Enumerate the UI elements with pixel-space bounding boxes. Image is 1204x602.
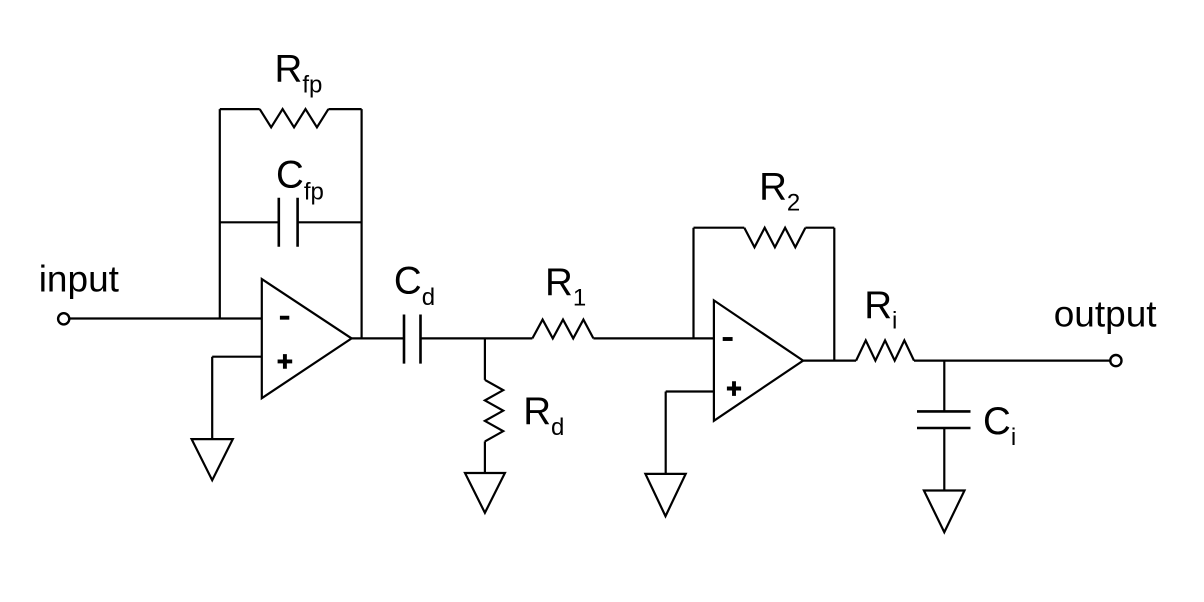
resistor Ri (zigzag, teeth up)	[856, 340, 914, 360]
ground symbol under U1	[192, 439, 233, 480]
wire: input terminal to op-amp U1 inverting input	[70, 317, 262, 319]
wire: U2 non-inverting input vertical to ground	[665, 392, 667, 474]
wire: Rd to ground	[484, 441, 486, 473]
ground symbol under Ci	[924, 491, 965, 533]
wire: R1 to op-amp U2 inverting input	[593, 337, 714, 339]
op-amp U2 triangle	[714, 300, 803, 420]
wire: U1 output to Cd	[352, 337, 404, 339]
wire: Cfp branch left segment	[220, 221, 279, 223]
op-amp U2 minus sign	[723, 337, 733, 341]
svg-text:Cfp: Cfp	[276, 153, 324, 205]
wire: R2 top wire right segment	[805, 227, 834, 229]
resistor R2 (zigzag, teeth down)	[744, 228, 805, 248]
wire: feedback box 1 right vertical	[361, 109, 363, 338]
wire: Rfp top wire right segment	[328, 108, 361, 110]
svg-text:R2: R2	[759, 166, 800, 217]
op-amp U1 triangle	[262, 279, 352, 398]
ground symbol under Rd	[465, 473, 505, 513]
svg-text:Cd: Cd	[394, 259, 435, 311]
svg-text:Ri: Ri	[864, 284, 897, 335]
wire: feedback box 2 left vertical	[692, 228, 694, 339]
op-amp U1 minus sign	[280, 316, 289, 320]
wire: node A down to Rd	[484, 338, 486, 380]
wire: feedback box 2 right vertical	[833, 228, 835, 361]
svg-text:output: output	[1054, 293, 1158, 334]
wire: node B down to Ci	[943, 361, 945, 412]
resistor R1 (zigzag, teeth up)	[532, 320, 593, 339]
resistor Rfp (zigzag, teeth down)	[260, 109, 329, 127]
svg-text:Rd: Rd	[523, 390, 564, 441]
input terminal (open circle)	[58, 313, 69, 324]
op-amp U2 plus sign	[727, 381, 741, 396]
wire: Cfp branch right segment	[298, 221, 362, 223]
resistor Rd (vertical zigzag, teeth right)	[485, 380, 503, 442]
capacitor Ci (two horizontal plates)	[917, 411, 971, 428]
wire: Rfp top wire left segment	[220, 108, 260, 110]
wire: U1 non-inverting input vertical to ground	[211, 357, 213, 439]
ground symbol under U2	[645, 474, 685, 516]
svg-text:R1: R1	[545, 261, 586, 312]
wire: Ci to ground	[943, 428, 945, 491]
wire: Cd to node A and on to R1	[421, 337, 533, 339]
capacitor Cd (two vertical plates)	[404, 315, 421, 364]
wire: U2 non-inverting input horizontal	[666, 390, 714, 392]
wire: R2 top wire left segment	[694, 227, 745, 229]
svg-text:input: input	[39, 259, 120, 300]
output terminal (open circle)	[1110, 355, 1121, 366]
svg-text:Rfp: Rfp	[275, 47, 323, 98]
wire: feedback box 1 left vertical	[219, 109, 221, 318]
wire: Ri to node B and on to output terminal	[914, 360, 1110, 362]
wire: U2 output to Ri	[803, 360, 856, 362]
wire: U1 non-inverting input horizontal	[212, 356, 262, 358]
svg-text:Ci: Ci	[983, 400, 1016, 451]
op-amp U1 plus sign	[278, 354, 293, 369]
capacitor Cfp (two vertical plates)	[279, 198, 298, 247]
